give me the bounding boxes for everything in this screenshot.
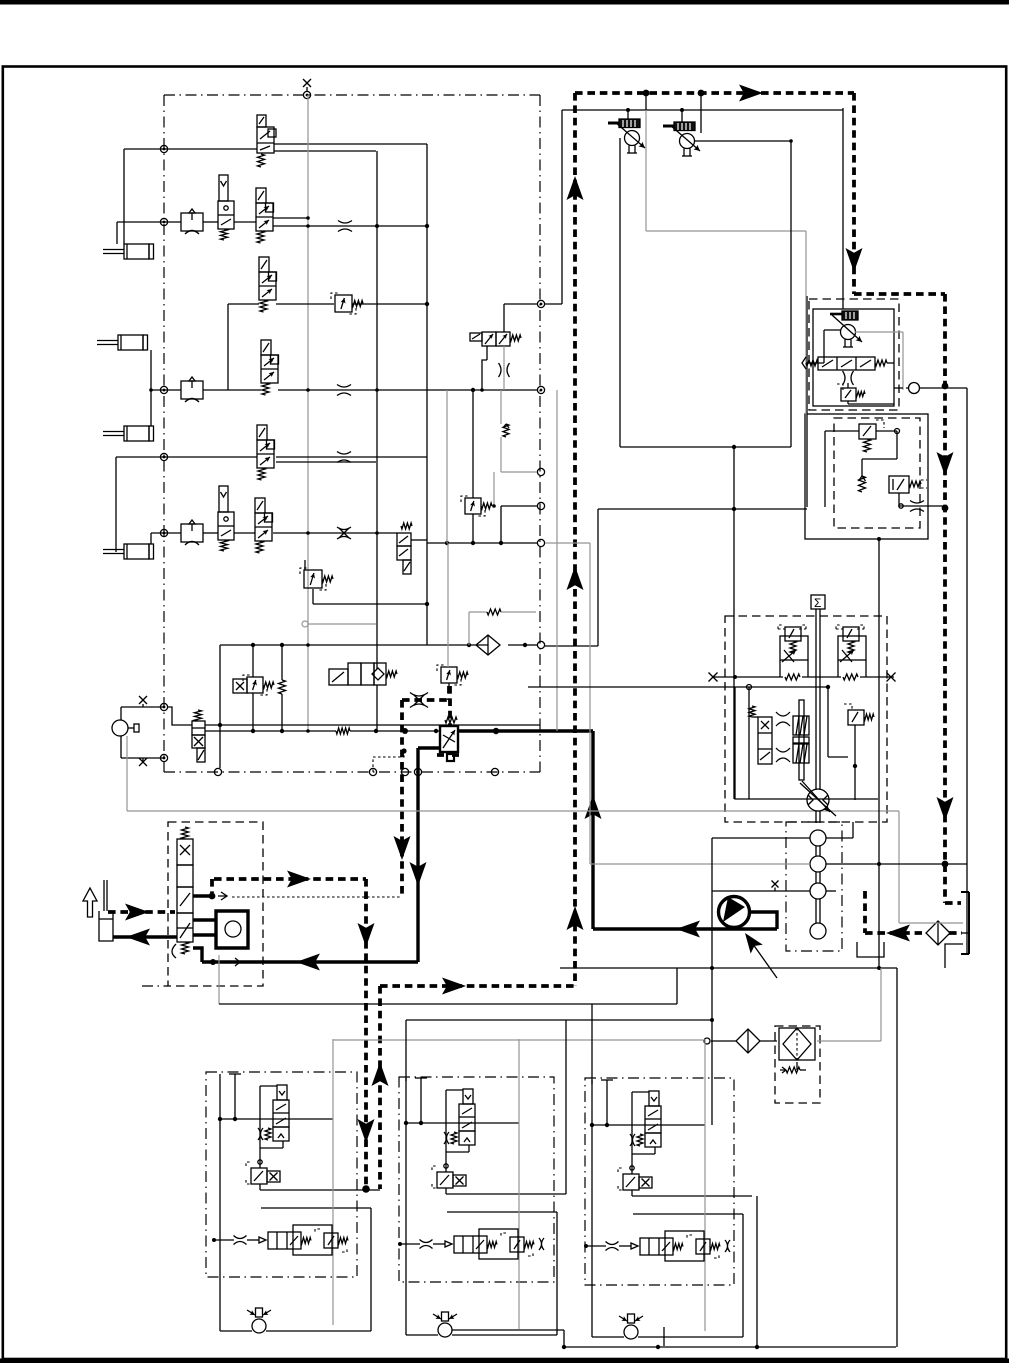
svg-text:Σ: Σ [814, 596, 821, 610]
